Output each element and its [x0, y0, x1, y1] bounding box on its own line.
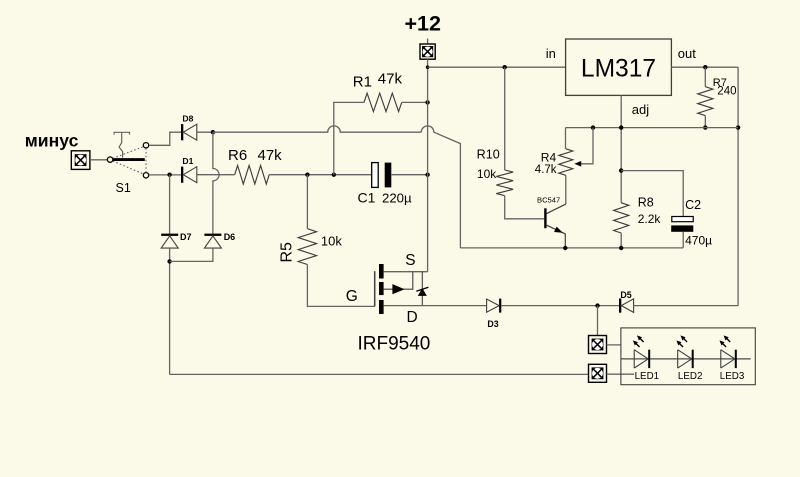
svg-text:240: 240 [717, 85, 736, 97]
diode D6 [204, 234, 221, 249]
wire bottom return to output terminal [170, 373, 589, 375]
svg-text:47k: 47k [378, 70, 403, 87]
terminal +12 supply [420, 44, 435, 59]
wire drain rail to D3 [384, 305, 487, 307]
transistor Q1 BC547 base bar [544, 208, 546, 228]
resistor R6 zigzag [235, 165, 270, 184]
wire R7 bottom stub [704, 116, 706, 128]
terminal LED+ (upper) [589, 336, 607, 354]
svg-text:минус: минус [25, 131, 79, 151]
diode D7 [161, 234, 178, 249]
wire node A to R1-left vertical (hop) [213, 126, 421, 132]
wire D5 anode to right rail [634, 305, 739, 307]
wire upper terminal to LED box [607, 344, 621, 346]
svg-text:D6: D6 [224, 232, 236, 242]
switch S1 top contact circle [143, 143, 148, 148]
svg-text:47k: 47k [258, 147, 283, 164]
wire source lead to +12 rail [384, 271, 428, 273]
junction R5 top [305, 173, 309, 177]
junction +12 in-wire tee [426, 65, 430, 69]
svg-text:C1: C1 [358, 190, 376, 206]
wire adj pin down [620, 95, 622, 170]
diode D5 [619, 299, 634, 313]
wire R1 left vertical [334, 102, 364, 174]
svg-text:LED1: LED1 [635, 371, 660, 382]
wire S1 bottom contact to D1 [149, 174, 181, 176]
junction LED feed node [595, 303, 599, 307]
resistor R5 zigzag [298, 229, 316, 265]
wire R4 wiper [581, 128, 594, 164]
wire R4 top [565, 128, 567, 149]
transistor Q1 emitter lead [547, 225, 566, 248]
svg-text:LED3: LED3 [720, 371, 745, 382]
capacitor C2 bottom plate [671, 225, 693, 231]
wire hop over +12 rail then diagonal down [421, 126, 460, 248]
junction R8 bottom on rail [619, 246, 623, 250]
transistor Q2 channel bar top [379, 264, 384, 279]
svg-text:D3: D3 [487, 319, 498, 329]
resistor R4 zigzag [559, 149, 573, 176]
wire D7 anode down [169, 248, 171, 374]
svg-text:out: out [678, 46, 696, 61]
svg-text:LM317: LM317 [581, 56, 656, 83]
wire R10 top vertical [504, 67, 506, 170]
svg-text:S1: S1 [116, 181, 131, 195]
svg-text:D8: D8 [182, 114, 193, 124]
junction R1-left bottom [332, 173, 336, 177]
wire R8 bottom stub [620, 233, 622, 248]
wire D8 anode to node A [197, 131, 213, 133]
switch S1 pole bar [113, 158, 145, 161]
terminal LED- (lower) [589, 364, 607, 382]
svg-text:C2: C2 [685, 198, 701, 212]
svg-text:220µ: 220µ [382, 191, 412, 206]
switch S1 bottom contact circle [143, 173, 148, 178]
resistor R8 zigzag [614, 203, 629, 233]
svg-text:D: D [407, 309, 418, 326]
wire LED string line [621, 358, 751, 360]
svg-text:IRF9540: IRF9540 [358, 333, 431, 354]
svg-text:2.2k: 2.2k [638, 212, 662, 226]
wire D3 cathode to D5 [501, 305, 619, 307]
terminal минус (input) [71, 151, 90, 170]
diode D1 [181, 167, 197, 183]
transistor Q2 channel bar middle [379, 282, 384, 295]
diode D8 [181, 124, 197, 140]
junction R4 wiper feed [591, 125, 595, 129]
LED LED3 [720, 335, 737, 368]
svg-text:470µ: 470µ [685, 233, 712, 247]
wire out rail down right side [737, 67, 739, 305]
wire D1 anode to R6 [197, 174, 235, 176]
svg-text:D1: D1 [182, 156, 193, 166]
wire stub above +12 terminal [427, 39, 429, 44]
wire S1 top contact to D8 [149, 132, 181, 145]
wire C2 bottom [682, 232, 684, 248]
junction adj pin on rail [619, 125, 623, 129]
junction node A (D8 anode) [211, 130, 215, 134]
wire node A down to D6 (hop over horizontal) [213, 132, 219, 233]
svg-text:R6: R6 [228, 147, 247, 164]
junction R10 top [503, 65, 507, 69]
wire R8 top stub [620, 171, 622, 203]
svg-text:R1: R1 [353, 74, 372, 91]
wire R4 bottom to BC547 collector [565, 175, 567, 204]
svg-text:R10: R10 [477, 147, 500, 161]
diode D3 [487, 299, 502, 313]
wire C1 to +12 rail [391, 174, 427, 176]
switch S1 actuator [114, 132, 129, 157]
junction R8/C2 top [619, 168, 623, 172]
junction adj rail right end [736, 125, 740, 129]
wire LM317 out [671, 66, 738, 68]
junction R7 bottom on adj rail [703, 125, 707, 129]
svg-text:R8: R8 [638, 196, 654, 210]
transistor Q2 channel bar bottom [379, 300, 384, 314]
resistor R7 zigzag [698, 87, 713, 116]
wire in to LM317 [428, 66, 566, 68]
wire R5 top vertical [306, 175, 308, 229]
wire bottom rail to C2 ground corner [460, 247, 683, 249]
svg-text:in: in [546, 46, 556, 61]
arrow R4 wiper head [574, 161, 581, 167]
arrow Q1 emitter head [554, 227, 564, 236]
wire C2 top [621, 171, 683, 217]
svg-text:S: S [405, 252, 415, 269]
junction D7/D6 anodes [167, 259, 171, 263]
svg-text:R4: R4 [541, 150, 557, 164]
svg-text:LED2: LED2 [678, 371, 703, 382]
IC U1 LM317 box [566, 39, 672, 95]
junction C1 right on +12 rail [425, 173, 429, 177]
svg-text:G: G [346, 288, 358, 305]
LED LED2 [676, 335, 693, 368]
junction R1 right on +12 rail [425, 100, 429, 104]
wire node B down to D7 [169, 175, 171, 234]
capacitor C2 top plate [672, 217, 693, 222]
wire R5 bottom to gate [307, 265, 374, 307]
svg-text:D5: D5 [620, 290, 631, 300]
transistor Q1 collector lead [547, 204, 566, 214]
LED LED1 [633, 335, 650, 368]
capacitor C1 left plate [372, 163, 379, 188]
wire R7 top stub [704, 67, 706, 87]
junction R7 top [703, 65, 707, 69]
junction Q1 emitter on bottom rail [563, 246, 567, 250]
svg-text:+12: +12 [405, 12, 442, 36]
wire D6 anode to junction [170, 248, 213, 261]
svg-text:R5: R5 [279, 242, 296, 263]
transistor Q2 IRF9540 gate electrode [374, 271, 376, 306]
wire LED feed node down to terminal [597, 306, 599, 336]
wire R10 bottom to BC547 base [505, 196, 544, 219]
junction node B (D1 left) [167, 173, 171, 177]
svg-text:4.7k: 4.7k [535, 164, 557, 176]
wire R6 to C1 [269, 174, 372, 176]
arrow Q2 substrate [384, 272, 413, 290]
resistor R10 zigzag [496, 170, 513, 196]
LED module box [621, 328, 755, 385]
svg-text:adj: adj [632, 102, 649, 117]
wire +12 rail vertical [427, 59, 429, 272]
diode Q2 body diode [421, 272, 423, 306]
wire lower terminal stub to LED1 [607, 373, 634, 375]
svg-text:10k: 10k [477, 167, 497, 181]
wire R1 right to +12 rail [402, 101, 428, 103]
switch S1 dashed throw lines [113, 147, 146, 174]
wire терминал to S1 pole [90, 159, 107, 161]
switch S1 pole contact circle [107, 157, 112, 162]
svg-text:10k: 10k [321, 233, 342, 248]
svg-text:BC547: BC547 [537, 196, 560, 205]
wire adj rail horizontal [566, 127, 739, 129]
resistor R1 zigzag [364, 93, 402, 111]
svg-text:D7: D7 [180, 232, 192, 242]
capacitor C1 right plate [385, 163, 392, 188]
